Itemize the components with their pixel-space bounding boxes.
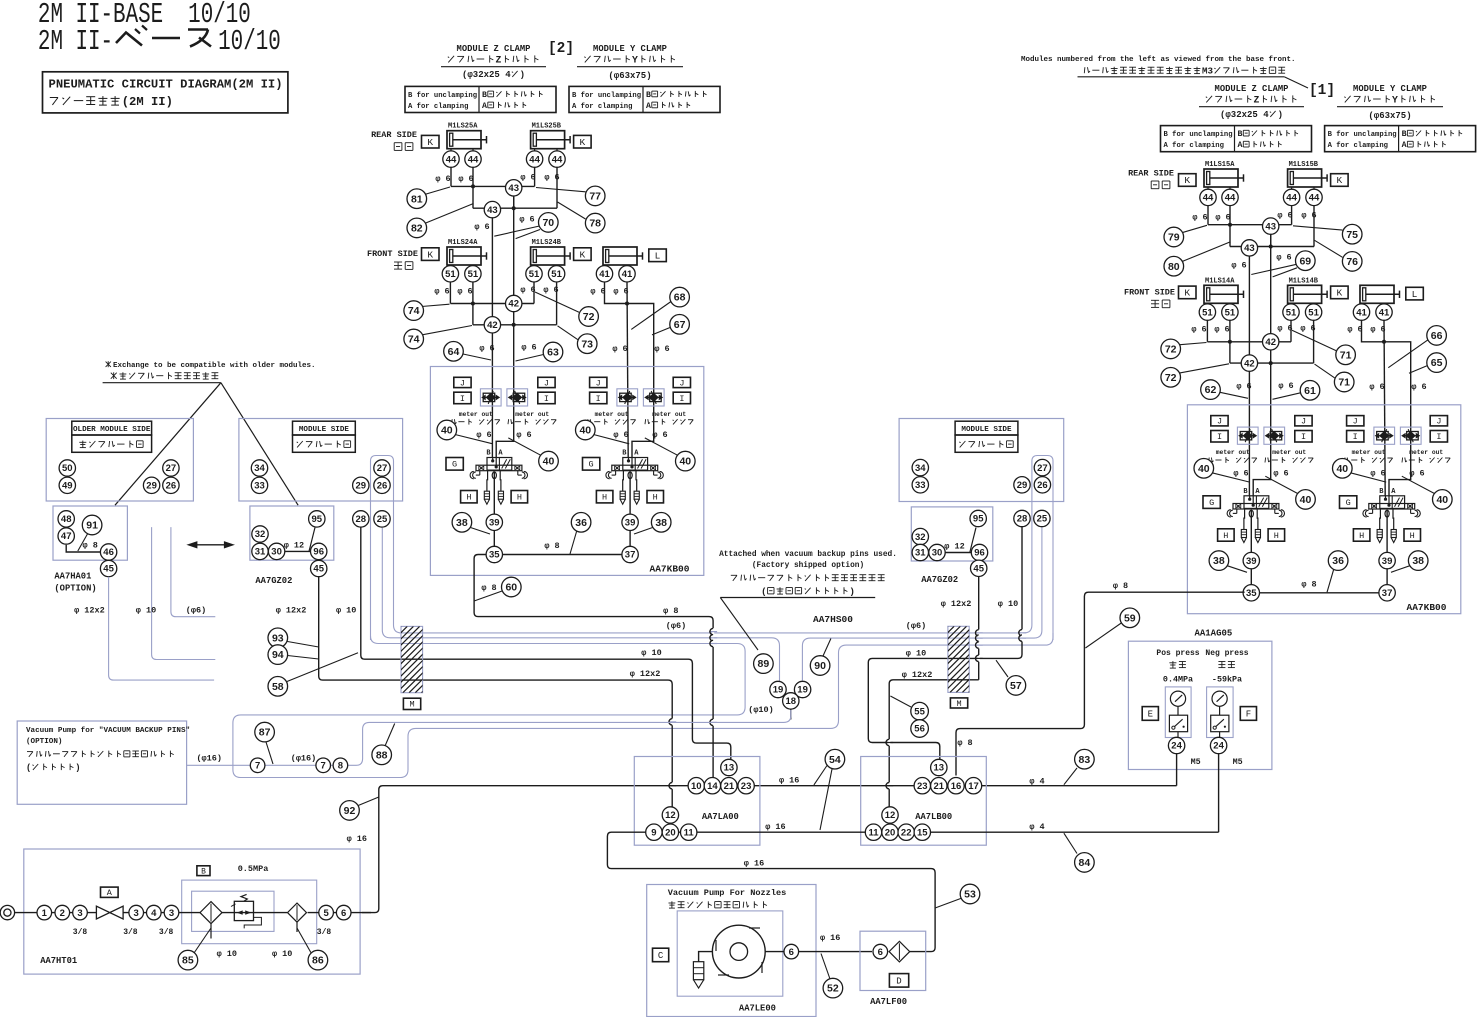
K box rear-right [1331, 174, 1349, 187]
circle 48 [58, 511, 74, 527]
filter 1 [200, 902, 222, 924]
svg-text:45: 45 [313, 564, 324, 575]
callout 40d [1402, 476, 1437, 494]
I box [673, 392, 690, 404]
svg-text:8: 8 [338, 761, 343, 772]
svg-text:M1LS14A: M1LS14A [1205, 277, 1235, 285]
wire front bus2 [472, 282, 474, 325]
blue stub wires from OLDER side [109, 577, 215, 680]
svg-text:φ 6: φ 6 [1369, 382, 1384, 392]
svg-text:K: K [580, 137, 586, 148]
title box PNEUMATIC CIRCUIT DIAGRAM [43, 72, 288, 113]
svg-text:54: 54 [829, 754, 841, 766]
svg-text:46: 46 [103, 547, 114, 558]
node 43a [1270, 225, 1272, 247]
node circle 42 upper [506, 295, 522, 311]
svg-text:Vacuum Pump for "VACUUM BACKUP: Vacuum Pump for "VACUUM BACKUP PINS" [26, 727, 190, 735]
J box [673, 377, 690, 387]
svg-text:59: 59 [1124, 612, 1136, 624]
svg-text:27: 27 [166, 463, 177, 474]
svg-text:A for clamping: A for clamping [572, 103, 632, 111]
AA7HA01 box [53, 506, 127, 560]
port circle 44 [1283, 189, 1299, 205]
svg-text:(φ16): (φ16) [196, 754, 222, 764]
svg-text:M1LS24A: M1LS24A [448, 239, 478, 247]
svg-text:25: 25 [1037, 514, 1048, 525]
callout 64 [463, 354, 491, 360]
svg-text:53: 53 [964, 889, 976, 901]
svg-text:(φ32x25 4: (φ32x25 4 [1220, 110, 1269, 120]
svg-text:E: E [1148, 710, 1153, 720]
node circle 39 right [1379, 552, 1395, 568]
callout 60 [474, 591, 503, 602]
circle 23 A [738, 778, 754, 794]
svg-text:M5: M5 [1191, 757, 1201, 767]
meter-out valve 3 [1374, 427, 1395, 444]
circle 32 left [252, 526, 268, 542]
circle 10 [688, 778, 704, 794]
port circle 51 [1222, 304, 1238, 320]
svg-text:φ 16: φ 16 [779, 775, 799, 785]
valve1 output wire [1250, 510, 1252, 593]
svg-text:AA7GZ02: AA7GZ02 [921, 575, 958, 585]
svg-text:7: 7 [255, 761, 260, 772]
svg-text:φ 6: φ 6 [474, 222, 489, 232]
K box front-left [1179, 286, 1197, 299]
bus 35-37 [493, 554, 631, 556]
svg-text:3: 3 [169, 908, 174, 919]
gauge F [1212, 691, 1227, 706]
node circle 43 upper [506, 180, 522, 196]
node circle 43 lower [484, 201, 500, 217]
svg-text:84: 84 [1079, 857, 1091, 869]
wire phi10 left (module28 to AA7LA00-13) [361, 527, 731, 759]
svg-text:B: B [646, 91, 651, 100]
svg-text:M1LS15B: M1LS15B [1289, 161, 1319, 169]
svg-text:4: 4 [151, 908, 157, 919]
wire 18 stub [790, 710, 792, 720]
svg-text:95: 95 [973, 514, 984, 525]
svg-text:3/8: 3/8 [159, 928, 174, 937]
callout 72 [1179, 343, 1207, 345]
meter-out valve 3 [617, 389, 638, 406]
svg-text:(φ6): (φ6) [186, 605, 206, 615]
svg-text:40: 40 [1336, 463, 1348, 475]
meter-out valve 2 [507, 389, 528, 406]
svg-text:J: J [460, 378, 465, 388]
svg-text:φ 6: φ 6 [458, 174, 473, 184]
svg-text:I: I [596, 394, 601, 404]
svg-text:51: 51 [551, 269, 562, 280]
circle 21 B [931, 778, 947, 794]
svg-text:-59kPa: -59kPa [1212, 675, 1242, 685]
circle 24 F [1210, 737, 1226, 753]
svg-text:AA7KB00: AA7KB00 [1407, 602, 1447, 613]
wire Y-cyl right port [1384, 320, 1385, 496]
svg-text:φ 12: φ 12 [944, 541, 964, 551]
callout 36 [1327, 568, 1334, 592]
callout 38 right [1391, 565, 1411, 572]
circle 21 A [721, 778, 737, 794]
svg-text:56: 56 [914, 724, 925, 735]
svg-text:REAR SIDE: REAR SIDE [1128, 168, 1174, 178]
circle 34 right [912, 459, 928, 475]
svg-text:H: H [1359, 531, 1364, 541]
node circle 42 lower [1241, 355, 1257, 371]
svg-text:41: 41 [1356, 307, 1367, 318]
svg-text:φ 6: φ 6 [1300, 324, 1315, 334]
katakana be-su (title) [116, 33, 142, 46]
svg-text:31: 31 [915, 548, 926, 559]
node circle 42 upper [1263, 334, 1279, 350]
svg-text:1: 1 [42, 908, 48, 919]
G box 2 [583, 458, 600, 471]
node circle 39 left [1243, 552, 1259, 568]
svg-text:φ 6: φ 6 [1233, 468, 1248, 478]
svg-text:AA7LA00: AA7LA00 [702, 812, 739, 822]
callout 61 [1273, 393, 1301, 400]
svg-text:M1LS14B: M1LS14B [1289, 277, 1319, 285]
svg-text:φ 4: φ 4 [1029, 822, 1044, 832]
svg-text:A: A [646, 102, 651, 111]
circle 25 right [1034, 510, 1050, 526]
callout 77 [536, 188, 586, 192]
callout 54 [814, 766, 827, 785]
D box [889, 974, 908, 988]
callout 69 [1251, 264, 1296, 274]
svg-text:44: 44 [446, 154, 457, 165]
meter-out valve 1 [1237, 427, 1258, 444]
svg-text:φ 6: φ 6 [1236, 382, 1251, 392]
callout 75 [1293, 226, 1343, 230]
AA7GZ02 box right [911, 507, 993, 561]
wire phi10 right (module28 to AA7LB00-13) [868, 527, 1022, 760]
blue U-bundle around left 27/26 + phi6 line [371, 456, 1054, 641]
port circle 44 [1306, 189, 1322, 205]
pump out wire [765, 951, 872, 953]
supply vertical A (43a down) [496, 196, 514, 458]
svg-text:K: K [427, 137, 433, 148]
J box [590, 377, 607, 387]
I box [590, 392, 607, 404]
svg-text:Pos press: Pos press [1156, 649, 1199, 658]
svg-text:71: 71 [1338, 377, 1350, 389]
circle 27 left-module [374, 460, 390, 476]
callout 58 [287, 653, 358, 682]
svg-text:φ 6: φ 6 [434, 286, 449, 296]
node circle 39 left [486, 514, 502, 530]
svg-text:AA7GZ02: AA7GZ02 [255, 576, 292, 586]
circle 20 A [662, 824, 678, 840]
bus 35-37 [1250, 592, 1388, 594]
port circle 41 [596, 266, 612, 282]
port circle 44 [549, 151, 565, 167]
callout 85 [193, 928, 211, 955]
svg-text:FRONT SIDE: FRONT SIDE [367, 249, 418, 259]
svg-text:MODULE SIDE: MODULE SIDE [961, 426, 1012, 434]
svg-text:φ 12x2: φ 12x2 [941, 599, 972, 609]
svg-text:23: 23 [741, 781, 752, 792]
svg-text:27: 27 [1037, 463, 1048, 474]
svg-text:6: 6 [878, 947, 883, 958]
svg-text:φ 6: φ 6 [1277, 324, 1292, 334]
callout 62 [1220, 392, 1248, 398]
circle 23 B [914, 778, 930, 794]
svg-text:32: 32 [255, 529, 266, 540]
circle 27 [163, 460, 179, 476]
wire front bus1 [1206, 320, 1208, 342]
svg-text:φ 10: φ 10 [336, 605, 356, 615]
svg-text:L: L [655, 251, 661, 262]
svg-text:21: 21 [934, 781, 945, 792]
svg-text:φ 16: φ 16 [820, 933, 840, 943]
H boxes valve1 [461, 491, 478, 503]
circle 31 right [912, 544, 928, 560]
svg-text:11: 11 [684, 827, 695, 838]
svg-text:51: 51 [1202, 307, 1213, 318]
circle 5 [319, 905, 334, 920]
svg-text:72: 72 [583, 311, 595, 323]
shutoff valve A bowtie [96, 906, 123, 919]
svg-text:B: B [482, 91, 487, 100]
svg-text:(Factory shipped option): (Factory shipped option) [752, 562, 864, 570]
svg-text:H: H [1410, 531, 1415, 541]
svg-text:meter out: meter out [515, 411, 549, 418]
svg-text:40: 40 [1198, 463, 1210, 475]
svg-text:B for unclamping: B for unclamping [1328, 131, 1397, 139]
svg-text:(: ( [26, 763, 31, 773]
svg-text:φ 6: φ 6 [1278, 381, 1293, 391]
svg-text:51: 51 [468, 269, 479, 280]
svg-text:82: 82 [411, 223, 423, 235]
svg-text:φ 6: φ 6 [652, 430, 667, 440]
circle 22 [898, 824, 914, 840]
Y-clamp cylinder (no label) [603, 247, 637, 265]
svg-text:83: 83 [1079, 754, 1091, 766]
svg-text:φ 6: φ 6 [1231, 260, 1246, 270]
svg-text:I: I [460, 394, 465, 404]
svg-text:24: 24 [1213, 741, 1224, 752]
svg-text:B for unclamping: B for unclamping [408, 92, 477, 100]
svg-text:13: 13 [934, 763, 945, 774]
callout 93 [288, 642, 319, 648]
wire phi12x2 right (gz45 merge) [978, 577, 980, 680]
AA7LA00 box [634, 757, 760, 846]
svg-text:φ 6: φ 6 [1277, 211, 1292, 221]
H boxes valve2 [1353, 529, 1370, 541]
svg-text:(: ( [761, 586, 767, 597]
callout 92 [357, 797, 379, 806]
circle 26 left-module [374, 477, 390, 493]
svg-text:28: 28 [1017, 514, 1028, 525]
port circle 41 [619, 266, 635, 282]
svg-text:80: 80 [1168, 261, 1180, 273]
wire gauge F down [1219, 732, 1221, 738]
svg-text:7: 7 [321, 761, 326, 772]
L box [1406, 287, 1424, 300]
svg-text:φ 8: φ 8 [1113, 581, 1128, 591]
callout 40a [1212, 473, 1250, 482]
svg-text:φ 6: φ 6 [613, 430, 628, 440]
callout 74 [422, 326, 473, 335]
circle 27 right [1034, 459, 1050, 475]
svg-text:(φ63x75): (φ63x75) [1368, 111, 1411, 121]
callout 71 [1292, 330, 1336, 350]
svg-text:38: 38 [456, 517, 468, 529]
svg-text:29: 29 [146, 481, 157, 492]
MODULE SIDE box right [899, 419, 1064, 502]
circle 3c [164, 905, 179, 920]
svg-text:Z: Z [496, 55, 502, 66]
svg-text:42: 42 [487, 320, 498, 331]
svg-text:AA7LF00: AA7LF00 [870, 997, 907, 1007]
svg-text:B: B [1402, 130, 1407, 139]
svg-text:meter out: meter out [1272, 449, 1306, 456]
svg-text:φ 8: φ 8 [1301, 579, 1316, 589]
svg-text:K: K [1184, 288, 1190, 299]
svg-text:K: K [427, 249, 433, 260]
K box rear-right [574, 135, 592, 148]
port circle 44 [1222, 189, 1238, 205]
svg-text:φ 12x2: φ 12x2 [74, 605, 105, 615]
svg-text:(φ10): (φ10) [748, 705, 774, 715]
svg-text:[1]: [1] [1309, 83, 1335, 99]
circle 3b [129, 905, 144, 920]
circle 29 right [1014, 477, 1030, 493]
svg-text:M1LS24B: M1LS24B [532, 239, 562, 247]
circle 28 left-module [353, 511, 369, 527]
circle 8 [333, 758, 348, 773]
svg-text:60: 60 [505, 582, 517, 594]
svg-text:AA1AG05: AA1AG05 [1194, 628, 1232, 638]
svg-text:meter out: meter out [595, 411, 629, 418]
lower phi16 line [607, 832, 1218, 951]
callout 76 [1315, 240, 1343, 257]
callout 70 [494, 226, 539, 236]
svg-text:43: 43 [508, 183, 519, 194]
svg-text:MODULE Y CLAMP: MODULE Y CLAMP [1353, 84, 1427, 94]
circle 96 right [971, 544, 987, 560]
svg-text:J: J [1301, 417, 1306, 427]
svg-text:0.4MPa: 0.4MPa [1163, 675, 1193, 685]
svg-text:44: 44 [1203, 193, 1214, 204]
filter LF [889, 941, 910, 962]
svg-text:36: 36 [575, 517, 587, 529]
svg-text:φ 12x2: φ 12x2 [276, 605, 307, 615]
wire phi8 left (35 exit to AA7LA00-14) [474, 555, 713, 778]
circle 12 A [662, 807, 678, 823]
svg-text:φ 12x2: φ 12x2 [902, 670, 933, 680]
svg-text:28: 28 [356, 514, 367, 525]
svg-text:44: 44 [552, 154, 563, 165]
circle 26 right [1034, 477, 1050, 493]
svg-text:3/8: 3/8 [73, 928, 88, 937]
port circle 44 [526, 151, 542, 167]
svg-text:10: 10 [691, 781, 702, 792]
svg-text:3: 3 [77, 908, 82, 919]
gauge E [1170, 691, 1185, 706]
callout 57 [996, 660, 1008, 677]
svg-text:A: A [482, 102, 487, 111]
H boxes valve2 [596, 491, 613, 503]
svg-text:H: H [653, 493, 658, 503]
svg-text:φ 6: φ 6 [1191, 325, 1206, 335]
svg-text:19: 19 [797, 685, 808, 696]
circle 11 B [865, 824, 881, 840]
svg-text:M5: M5 [1233, 757, 1243, 767]
svg-text:63: 63 [547, 347, 559, 359]
gauge sub-box E [1165, 687, 1191, 738]
svg-text:40: 40 [543, 456, 555, 468]
circle 7a [250, 758, 265, 773]
svg-text:58: 58 [272, 681, 284, 693]
svg-text:39: 39 [1382, 556, 1393, 567]
note pointer + callout 89 [720, 598, 758, 651]
diag 96-95 right [970, 528, 976, 553]
svg-text:φ 6: φ 6 [479, 343, 494, 353]
svg-text:51: 51 [1225, 307, 1236, 318]
svg-text:H: H [466, 493, 471, 503]
svg-text:45: 45 [973, 564, 984, 575]
svg-text:67: 67 [674, 319, 686, 331]
svg-text:J: J [1436, 417, 1441, 427]
svg-text:meter out: meter out [459, 411, 493, 418]
svg-text:39: 39 [1246, 556, 1257, 567]
port circle 44 [1200, 189, 1216, 205]
svg-text:Z: Z [1254, 95, 1260, 106]
svg-text:86: 86 [312, 955, 324, 967]
svg-text:66: 66 [1431, 330, 1443, 342]
svg-text:AA7HT01: AA7HT01 [40, 956, 77, 966]
svg-text:A for clamping: A for clamping [1328, 142, 1388, 150]
inner blue box outer [182, 880, 317, 944]
svg-text:A: A [107, 888, 113, 898]
svg-text:43: 43 [1265, 221, 1276, 232]
callout 78 [558, 202, 586, 219]
svg-text:(φ32x25 4: (φ32x25 4 [462, 70, 511, 80]
callout 88 [385, 724, 395, 747]
I box [1211, 431, 1228, 443]
valve2 output wire [629, 472, 631, 555]
blue serpentine (phi10) harness [233, 633, 1053, 778]
svg-text:FRONT SIDE: FRONT SIDE [1124, 287, 1175, 297]
port circle 51 [1305, 304, 1321, 320]
svg-text:87: 87 [259, 727, 271, 739]
svg-text:J: J [596, 378, 601, 388]
svg-text:30: 30 [932, 548, 943, 559]
svg-text:AA7HS00: AA7HS00 [813, 614, 853, 625]
svg-text:30: 30 [271, 547, 282, 558]
circle 50 [59, 460, 75, 476]
svg-text:51: 51 [1286, 307, 1297, 318]
svg-text:φ 6: φ 6 [435, 174, 450, 184]
svg-text:55: 55 [914, 706, 925, 717]
svg-text:17: 17 [968, 781, 979, 792]
svg-text:36: 36 [1332, 555, 1344, 567]
H boxes valve1 [1218, 529, 1235, 541]
circle 47 [58, 528, 74, 544]
svg-text:Neg press: Neg press [1205, 649, 1248, 658]
circle 7b [316, 758, 331, 773]
callout 80 [1182, 242, 1231, 262]
circle 45 [100, 560, 116, 576]
right clamp tables [1161, 126, 1312, 152]
port circle 51 [526, 266, 542, 282]
port circle 44 [465, 151, 481, 167]
callout 82 [425, 204, 474, 224]
svg-text:φ 8: φ 8 [663, 606, 678, 616]
meter-out valve 2 [1264, 427, 1285, 444]
